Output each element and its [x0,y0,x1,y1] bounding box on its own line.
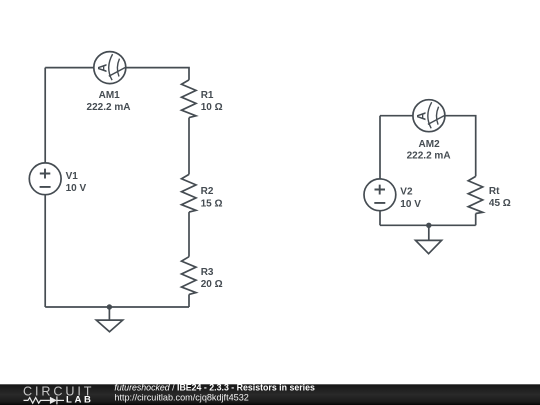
resistor R2 [182,174,197,212]
svg-text:http://circuitlab.com/cjq8kdjf: http://circuitlab.com/cjq8kdjft4532 [114,392,248,402]
svg-text:futureshocked / IBE24 - 2.3.3: futureshocked / IBE24 - 2.3.3 - Resistor… [114,382,315,392]
svg-text:R3: R3 [201,267,214,278]
svg-text:20 Ω: 20 Ω [201,279,223,290]
footer bar [0,384,540,405]
wire: R2 to R3 [188,212,190,257]
wire: left circuit bottom [45,306,189,308]
wire: right circuit left lower [379,211,381,226]
wire: right circuit top-left segment [380,115,413,117]
wire: R1 to R2 [188,118,190,175]
svg-text:V2: V2 [400,187,413,198]
wire: right circuit left upper [379,116,381,179]
svg-text:15 Ω: 15 Ω [201,198,223,209]
svg-text:R2: R2 [201,186,214,197]
resistor R3 [182,257,197,295]
svg-text:AM1: AM1 [99,90,121,101]
ground GND right [416,225,442,253]
svg-text:Rt: Rt [489,186,500,197]
svg-text:222.2 mA: 222.2 mA [407,151,451,162]
logo circuit glyph (resistor + diode) [24,396,65,404]
resistor R1 [182,80,197,118]
junction dot left [107,304,112,309]
svg-text:A: A [415,111,429,120]
svg-text:A: A [95,63,109,72]
wire: left circuit left lower [44,195,46,307]
svg-text:10 Ω: 10 Ω [201,102,223,113]
svg-text:45 Ω: 45 Ω [489,198,511,209]
svg-text:LAB: LAB [66,395,94,405]
svg-text:222.2 mA: 222.2 mA [87,102,131,113]
wire: left circuit top-left segment [45,67,94,69]
wire: R3 to bottom [188,294,190,307]
resistor Rt [468,176,483,213]
wire: left circuit top-right segment [126,68,189,80]
svg-text:10 V: 10 V [400,199,421,210]
svg-text:R1: R1 [201,90,214,101]
svg-text:10 V: 10 V [66,183,87,194]
svg-text:AM2: AM2 [419,139,441,150]
ammeter AM2 [413,100,445,132]
junction dot right [426,223,431,228]
wire: right circuit top-right segment [445,116,476,177]
svg-text:V1: V1 [66,171,79,182]
voltage source V2 [364,179,396,211]
wire: right circuit bottom [380,224,476,226]
wire: Rt to bottom [475,214,477,226]
voltage source V1 [29,163,61,195]
ammeter AM1 [94,52,126,84]
ground GND left [96,307,122,332]
wire: left circuit left upper [44,68,46,163]
